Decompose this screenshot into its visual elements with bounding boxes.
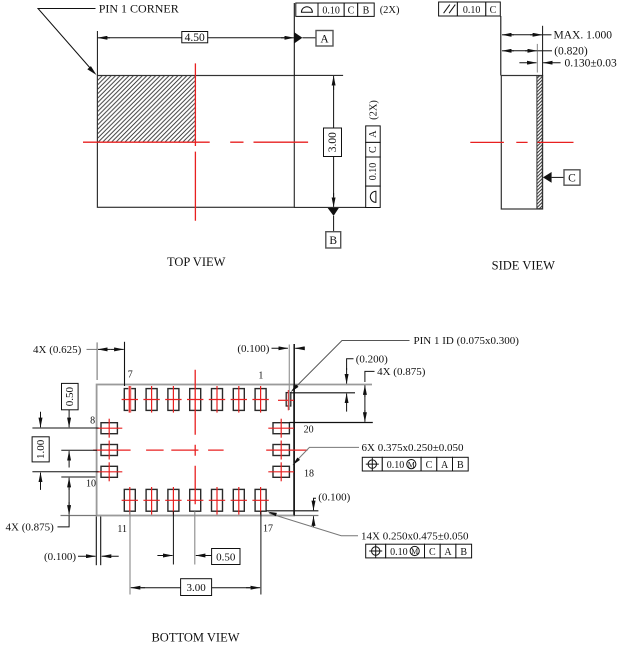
feature control frame: profile 0.10 C B (2X) — [296, 3, 374, 16]
right pads pins 20,19,18 — [273, 423, 289, 478]
svg-text:BOTTOM VIEW: BOTTOM VIEW — [151, 630, 239, 644]
svg-text:A: A — [320, 33, 329, 45]
svg-text:A: A — [368, 130, 379, 138]
dimension 3.00 (height) — [294, 74, 343, 76]
svg-text:MAX. 1.000: MAX. 1.000 — [554, 30, 613, 42]
leader: PIN 1 CORNER — [38, 9, 96, 74]
svg-text:(0.100): (0.100) — [237, 343, 269, 355]
svg-text:(0.100): (0.100) — [44, 551, 76, 563]
red vertical centerline (top view) — [194, 63, 196, 220]
red crosshairs top row pads — [122, 386, 269, 413]
dimension 0.130±0.03 — [519, 62, 536, 64]
dimension (0.820) — [502, 50, 514, 52]
svg-text:14X 0.250x0.475±0.050: 14X 0.250x0.475±0.050 — [361, 530, 469, 542]
svg-text:0.50: 0.50 — [216, 552, 236, 564]
svg-text:A: A — [441, 460, 449, 471]
top row pads pins 7..1 — [124, 389, 266, 411]
left pads pins 8,9,10 — [101, 423, 117, 478]
red centerline (side view) — [470, 141, 573, 143]
svg-text:0.10: 0.10 — [387, 460, 405, 471]
feature control frame: parallelism 0.10 C — [439, 2, 501, 16]
svg-text:20: 20 — [304, 425, 314, 436]
svg-text:6X 0.375x0.250±0.050: 6X 0.375x0.250±0.050 — [362, 442, 464, 454]
dimension 1.00 (left, boxed) — [32, 437, 49, 462]
datum C — [543, 172, 552, 183]
svg-text:M: M — [408, 460, 415, 469]
svg-text:1.00: 1.00 — [35, 439, 47, 459]
pin 1 ID pad — [286, 393, 291, 406]
svg-text:10: 10 — [86, 479, 96, 490]
hatched lid strip (right face) — [537, 76, 542, 209]
svg-text:4X (0.875): 4X (0.875) — [6, 521, 55, 533]
svg-text:1: 1 — [258, 371, 263, 382]
bottom extension lines from pads 11,13,14,17 — [129, 511, 131, 594]
vertical feature control frame: profile 0.10 C A (2X) — [366, 126, 381, 208]
svg-text:B: B — [457, 460, 464, 471]
svg-text:0.10: 0.10 — [390, 547, 408, 558]
svg-text:(2X): (2X) — [380, 5, 400, 16]
svg-text:(0.200): (0.200) — [356, 354, 388, 366]
left side dims: pad centre extension lines — [32, 427, 98, 429]
pad17 bottom edge extension line — [266, 510, 318, 512]
red horizontal centerline (top view) — [83, 141, 308, 143]
pin1 pad top edge extension line — [291, 392, 355, 394]
svg-text:C: C — [568, 173, 576, 185]
side view body outline — [501, 76, 542, 210]
svg-text:4.50: 4.50 — [185, 32, 205, 44]
red crosshairs right pads — [268, 419, 294, 482]
svg-text:8: 8 — [90, 415, 95, 426]
svg-text:C: C — [490, 5, 497, 16]
svg-text:0.10: 0.10 — [463, 5, 481, 16]
pad20 top edge extension line — [289, 422, 372, 424]
svg-text:0.10: 0.10 — [368, 163, 379, 181]
package top edge extension right (grey) — [294, 384, 372, 386]
dimension 3.00 (bottom, boxed) — [131, 587, 145, 589]
svg-text:11: 11 — [117, 524, 127, 535]
bottom row pads pins 11..17 — [124, 489, 266, 511]
red crosshairs bottom row pads — [122, 487, 269, 515]
svg-text:PIN 1 CORNER: PIN 1 CORNER — [99, 2, 179, 16]
svg-text:C: C — [368, 146, 379, 153]
dimension MAX. 1.000 — [502, 34, 514, 36]
red vertical centerline (bottom view) — [194, 370, 196, 505]
svg-text:M: M — [411, 547, 418, 556]
svg-text:4X (0.875): 4X (0.875) — [377, 366, 426, 378]
svg-text:(0.100): (0.100) — [318, 492, 350, 504]
svg-text:PIN 1 ID (0.075x0.300): PIN 1 ID (0.075x0.300) — [414, 335, 520, 347]
dimension 0.50 (left, boxed) — [62, 383, 79, 409]
svg-text:0.10: 0.10 — [322, 5, 340, 16]
dimension 4.50 (width) — [96, 31, 98, 76]
svg-text:3.00: 3.00 — [186, 582, 206, 594]
svg-text:B: B — [329, 235, 337, 247]
svg-text:TOP VIEW: TOP VIEW — [167, 255, 226, 269]
svg-text:SIDE VIEW: SIDE VIEW — [492, 258, 556, 272]
svg-text:C: C — [429, 547, 436, 558]
package right edge black extension (datum line) — [293, 344, 295, 516]
red crosshairs left pads — [97, 419, 123, 482]
red crosshair pin 1 ID pad — [278, 390, 294, 410]
svg-text:4X (0.625): 4X (0.625) — [33, 344, 82, 356]
extension line (0.820) grey — [536, 44, 538, 73]
svg-text:C: C — [348, 5, 355, 16]
svg-text:3.00: 3.00 — [327, 132, 339, 152]
dimension 0.50 (bottom, boxed) — [157, 555, 172, 557]
svg-text:B: B — [363, 5, 370, 16]
svg-text:C: C — [426, 460, 433, 471]
svg-text:0.50: 0.50 — [64, 386, 76, 406]
pin 1 corner hatched quadrant — [98, 76, 195, 142]
svg-text:0.130±0.03: 0.130±0.03 — [565, 58, 618, 70]
package body outline (top view) — [97, 76, 294, 208]
svg-text:A: A — [444, 547, 452, 558]
svg-text:B: B — [460, 547, 467, 558]
svg-text:7: 7 — [128, 370, 133, 381]
red horizontal centerline (bottom view) — [93, 449, 307, 451]
package bottom edge extension right (grey) — [294, 515, 319, 517]
svg-text:(0.820): (0.820) — [554, 46, 588, 58]
svg-text:(2X): (2X) — [369, 100, 380, 120]
package body outline (bottom view, grey) — [97, 385, 294, 516]
svg-text:18: 18 — [304, 469, 314, 480]
datum A — [294, 32, 302, 43]
extension line right edge — [542, 26, 544, 76]
svg-text:17: 17 — [263, 524, 273, 535]
datum B — [328, 208, 339, 216]
extension line from FCF down to side view body — [500, 16, 502, 76]
package bottom edge extension left (grey) — [61, 515, 97, 517]
FCF position 0.10 M C A B (6X) — [362, 457, 468, 471]
FCF position 0.10 M C A B (14X) — [366, 544, 472, 558]
